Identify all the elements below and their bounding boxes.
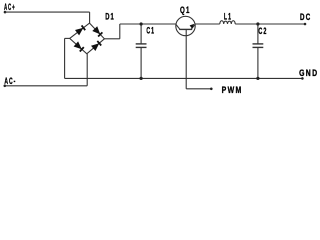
transistor Q1	[176, 16, 195, 35]
wire right riser to DC rail	[119, 24, 121, 39]
capacitor C1	[136, 24, 147, 78]
diode D1d	[91, 41, 101, 51]
bridge rectifier D1 outline	[70, 23, 105, 54]
svg-text:AC+: AC+	[4, 1, 16, 12]
wire left riser to ground rail	[64, 38, 66, 78]
wire Q1 base lead down	[185, 29, 187, 88]
wire ground rail	[65, 77, 303, 79]
terminal GND	[301, 77, 304, 80]
wire bridge right stub	[104, 38, 119, 40]
junction C2 bottom	[256, 77, 259, 80]
svg-text:C1: C1	[146, 25, 155, 36]
diode D1b	[92, 26, 102, 36]
wire bridge left stub	[65, 37, 70, 39]
svg-text:Q1: Q1	[180, 5, 191, 16]
junction C1 top	[140, 22, 143, 25]
svg-text:PWM: PWM	[222, 85, 243, 95]
wire AC+ riser to bridge top	[89, 12, 91, 23]
inductor L1	[220, 21, 235, 24]
svg-text:C2: C2	[258, 25, 267, 36]
terminal AC+	[4, 11, 7, 14]
wire DC rail Q1 to L1	[195, 23, 220, 25]
svg-text:L1: L1	[224, 11, 232, 22]
terminal AC-	[4, 85, 7, 88]
terminal PWM	[210, 88, 213, 91]
wire DC rail segment bridge to Q1	[120, 23, 176, 25]
capacitor C2	[253, 24, 264, 78]
wire DC rail L1 to DC terminal	[235, 23, 305, 25]
svg-text:GND: GND	[299, 68, 318, 78]
junction C1 bottom	[140, 77, 143, 80]
wire AC- riser to bridge bottom	[86, 54, 88, 86]
junction C2 top	[256, 22, 259, 25]
svg-text:DC: DC	[300, 12, 311, 23]
wire AC- horizontal	[5, 85, 87, 87]
wire AC+ horizontal	[5, 11, 90, 13]
svg-text:AC-: AC-	[4, 76, 16, 87]
diode D1a	[75, 25, 85, 35]
svg-text:D1: D1	[105, 11, 115, 22]
terminal DC	[304, 23, 307, 26]
wire PWM horizontal	[186, 88, 211, 90]
diode D1c	[74, 41, 84, 51]
